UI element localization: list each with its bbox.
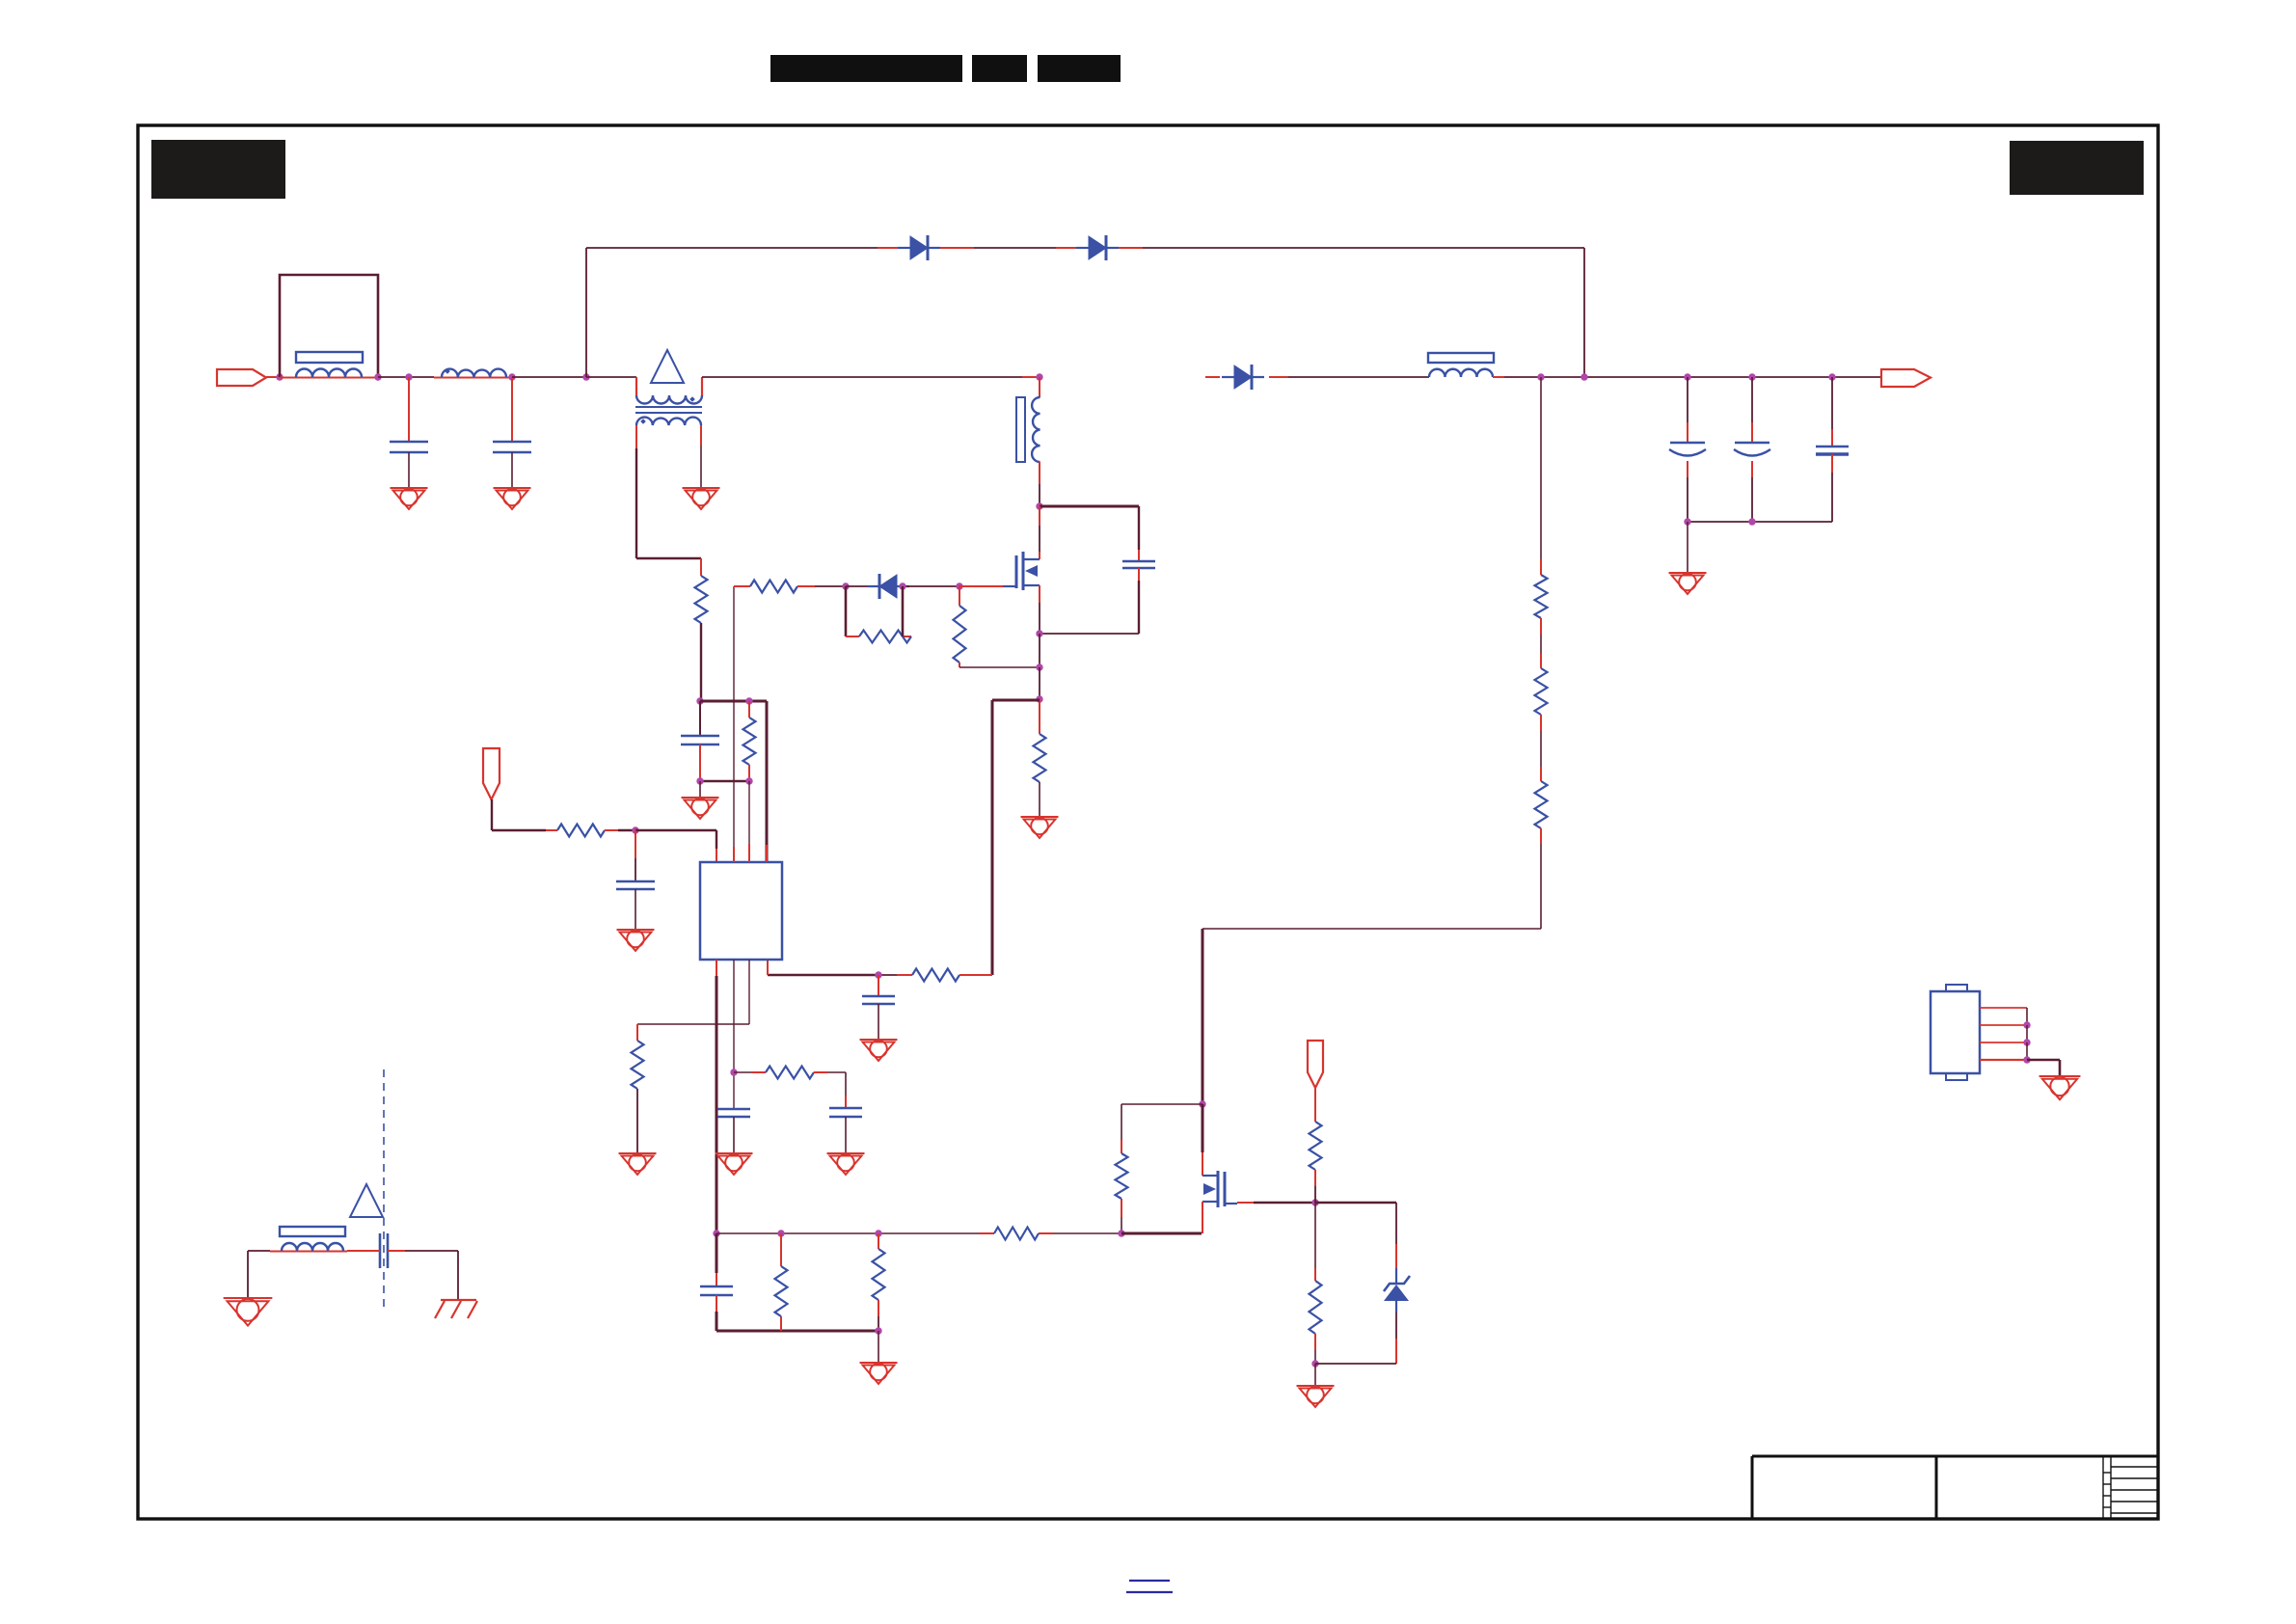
wire R16 to node	[797, 585, 815, 587]
phase dot T1 secondary	[640, 419, 646, 424]
node bypass left	[582, 373, 589, 380]
wire T1 primary left lead	[635, 377, 637, 395]
capacitor C4	[616, 880, 655, 883]
ground G10	[716, 1152, 753, 1154]
wire IC pin5 lead	[767, 960, 769, 975]
wire chain mid2	[1540, 715, 1542, 731]
redaction box top-left	[151, 140, 285, 199]
wire fb cap lead	[845, 1072, 847, 1096]
wire sense resistor top lead	[1039, 699, 1040, 734]
wire C3 top lead	[699, 701, 701, 736]
wire sense to ground	[1039, 782, 1040, 817]
mosfet Q2 arrow	[1203, 1183, 1216, 1195]
ground G1	[391, 487, 428, 489]
wire C13 lead	[1831, 377, 1833, 429]
wire R3 node to IC pin	[748, 781, 750, 844]
node sense top	[1537, 373, 1544, 380]
wire aux bottom run	[636, 557, 701, 559]
IC pin4 lead	[716, 960, 717, 976]
wire C3 bottom lead	[699, 744, 701, 781]
mosfet Q1 gate bar	[1015, 555, 1018, 588]
resistor R9	[994, 1228, 1039, 1240]
node fb	[730, 1069, 737, 1075]
node bus-3	[875, 1230, 881, 1236]
diode D6	[910, 236, 928, 259]
resistor R12	[1310, 1281, 1322, 1334]
capacitor C2	[493, 441, 531, 444]
wire C6 to ground	[845, 1117, 847, 1153]
node L3 top	[1036, 373, 1042, 380]
wire pin4 thick drop	[716, 976, 718, 1233]
wire T1 secondary right lead	[700, 425, 702, 446]
node C1 top	[405, 373, 412, 380]
node zener bottom	[1311, 1360, 1318, 1367]
wire R12 top	[1314, 1203, 1316, 1268]
transformer T1 core	[635, 406, 702, 408]
wire zener return	[1315, 1363, 1396, 1365]
wire gate run left	[734, 585, 750, 587]
wire pin2 branch left	[637, 1023, 749, 1025]
wire red at D6	[878, 247, 910, 249]
wire main from T1 to L3 node	[702, 376, 1022, 378]
wire zener branch down	[1395, 1203, 1397, 1244]
wire capbus to ground	[1687, 522, 1688, 573]
ground G11	[827, 1152, 865, 1154]
transformer T1 secondary winding	[636, 418, 701, 425]
wire main C2 to bypass node	[512, 376, 586, 378]
wire L3 bottom lead	[1039, 462, 1040, 484]
wire gate to zener corner	[1315, 1202, 1396, 1204]
node gate-1	[842, 582, 849, 589]
wire R12 bottom	[1314, 1334, 1316, 1350]
parallel loop bottom red	[846, 636, 859, 637]
capacitor C1	[390, 441, 428, 444]
node bus-2	[777, 1230, 784, 1236]
ground G13	[1297, 1385, 1335, 1387]
mosfet Q1 channel bar	[1022, 552, 1025, 590]
wire cap ground bus	[1688, 521, 1832, 523]
wire snubber return	[1040, 633, 1139, 635]
node J2-b	[2023, 1039, 2030, 1045]
ground G2	[494, 487, 531, 489]
resistor R17 parallel	[859, 631, 911, 643]
node aux-2	[745, 697, 752, 704]
connector J2 pin3 wire	[1980, 1042, 2027, 1043]
wire L5 to output	[1493, 376, 1504, 378]
capacitor C13	[1816, 446, 1849, 448]
node bus-1	[713, 1230, 719, 1236]
wire J2 to ground	[2027, 1059, 2060, 1062]
wire main input	[266, 376, 280, 378]
resistor R3	[743, 717, 756, 765]
page number mark	[1129, 1580, 1170, 1582]
wire bus to IC pin5	[768, 974, 878, 977]
mosfet Q2 drain stub	[1202, 1175, 1218, 1177]
wire Q2 drain riser	[1202, 929, 1204, 1104]
wire L4 to C10	[347, 1250, 380, 1252]
wire D4 left lead	[846, 585, 873, 587]
isolation barrier dashed line	[383, 1069, 385, 1308]
resistor R18	[954, 606, 966, 663]
node aux-4	[745, 777, 752, 784]
wire R4 to node	[605, 829, 618, 831]
parallel loop left side	[845, 586, 848, 636]
wire R11 bottom	[1314, 1170, 1316, 1186]
wire C2 to ground	[511, 452, 513, 488]
IC U1 pin stubs top	[748, 844, 750, 862]
connector J2 tab bottom	[1946, 1073, 1967, 1080]
wire C11 bottom	[1687, 461, 1688, 477]
inductor L1	[296, 369, 362, 378]
diode D7	[1089, 236, 1106, 259]
wire 5V down	[1314, 1088, 1316, 1122]
phase dot T1 primary	[689, 396, 695, 402]
connector J1 AC input	[217, 369, 266, 386]
mosfet Q2 channel bar	[1217, 1171, 1220, 1207]
resistor R3 top lead	[748, 701, 750, 717]
IC pin2 lead	[748, 960, 750, 1024]
node J2-c	[2023, 1056, 2030, 1063]
node vcc-cap	[632, 826, 638, 833]
wire Q2 source down	[1202, 1202, 1203, 1233]
node Q1 source	[1036, 695, 1042, 702]
wire main-2 to C1 node	[378, 376, 409, 378]
wire bus1380 to ground	[878, 1331, 879, 1363]
wire C12 lead	[1751, 377, 1753, 422]
wire R20 bottom	[1121, 1199, 1122, 1217]
node Q2 drain	[1199, 1100, 1205, 1107]
wire CS feedback red	[977, 974, 992, 976]
node R18 return	[1036, 663, 1042, 670]
wire C7 down	[716, 1295, 717, 1312]
transformer T1 primary winding	[636, 395, 702, 404]
node C2 top	[508, 373, 515, 380]
resistor R5 fb	[766, 1067, 814, 1079]
capacitor C10 Y-cap	[379, 1233, 382, 1268]
wire R6 top lead	[636, 1024, 638, 1041]
wire D3 leads red	[1205, 376, 1220, 378]
wire C5 to ground	[733, 1117, 735, 1153]
wire VCC down	[491, 799, 493, 830]
wire R8 leads	[878, 1233, 879, 1249]
wire Q2 gate lead	[1225, 1203, 1237, 1204]
wire C12 bottom	[1751, 461, 1753, 477]
capacitor C12	[1735, 442, 1769, 445]
parallel loop right side	[902, 586, 905, 636]
wire under L2 coil	[434, 377, 512, 379]
fuse F1 body	[296, 352, 363, 363]
wire Q2 drain lead	[1202, 1104, 1204, 1152]
node bus-4	[875, 1327, 881, 1334]
resistor R2 aux	[695, 576, 708, 623]
resistor R18 bottom lead	[959, 663, 960, 667]
node main-2	[374, 373, 381, 380]
node C11 top	[1684, 373, 1690, 380]
connector J2 body	[1931, 991, 1980, 1073]
node bypass right	[1580, 373, 1587, 380]
wire node row 810	[700, 780, 749, 782]
jumper loop over F1	[280, 275, 378, 377]
connector VCC port	[483, 748, 500, 799]
node aux-3	[696, 777, 703, 784]
wire main to T1	[586, 376, 636, 378]
inductor L5	[1429, 369, 1493, 377]
wire R20 branch	[1121, 1103, 1202, 1105]
inductor L3	[1032, 397, 1040, 462]
title redaction bar 2	[972, 55, 1027, 82]
ground G12	[860, 1362, 898, 1364]
wire L3 top lead	[1039, 377, 1040, 397]
phase dot L2	[445, 368, 450, 374]
wire C4 to ground	[635, 889, 636, 930]
mosfet Q1 drain stub	[1023, 558, 1040, 560]
wire R6 to ground	[636, 1089, 638, 1153]
wire source to sense node	[1039, 667, 1040, 699]
wire C13 bottom	[1831, 454, 1833, 473]
wire C1 to ground	[408, 452, 410, 488]
capacitor C3	[681, 735, 719, 738]
node Q1 drain	[1036, 502, 1042, 509]
wire C2 lead	[511, 377, 513, 442]
triangle marker iso	[350, 1184, 383, 1217]
ground G3	[683, 487, 720, 489]
resistor R8	[873, 1249, 885, 1300]
title block	[1752, 1455, 2158, 1458]
wire to ground G5	[699, 781, 701, 798]
node main-1	[276, 373, 283, 380]
node C12 top	[1748, 373, 1755, 380]
wire red at D7	[1056, 247, 1089, 249]
wire R7 leads	[780, 1233, 782, 1266]
resistor R3 bottom lead	[748, 765, 750, 781]
mosfet Q1 arrow	[1025, 565, 1038, 577]
ground G5	[682, 797, 719, 798]
resistor R18 top lead	[959, 586, 960, 606]
border frame	[138, 125, 2158, 1519]
wire R2 to VCC node	[700, 623, 702, 701]
inductor L4	[282, 1243, 343, 1251]
wire R5 to corner	[814, 1071, 827, 1073]
wire R9 red leads	[979, 1232, 994, 1234]
wire C4 top lead	[635, 830, 636, 858]
wire VCC run	[492, 829, 546, 831]
wire L4 left	[248, 1250, 270, 1252]
wire under L4 coil	[270, 1251, 347, 1253]
wire node row 727	[700, 700, 767, 703]
wire R10 leads	[959, 974, 977, 976]
capacitor C6	[829, 1107, 862, 1110]
resistor R13	[1535, 575, 1548, 618]
capacitor C5	[717, 1108, 750, 1111]
mosfet Q1 source stub	[1023, 584, 1040, 586]
wire VCC corner into IC pin 8	[766, 701, 769, 862]
wire snubber right lower	[1138, 568, 1140, 581]
resistor R7	[775, 1266, 788, 1316]
node snubber return	[1036, 630, 1042, 636]
wire main to L5	[1288, 376, 1429, 378]
node gate-2	[899, 582, 905, 589]
wire bypass top run	[586, 247, 1584, 249]
wire gate to R18 node	[926, 585, 959, 587]
wire C11 lead	[1687, 377, 1688, 422]
wire T1 primary right lead	[701, 377, 703, 395]
wire CS feedback riser	[991, 700, 994, 975]
resistor R16 gate	[750, 581, 797, 593]
capacitor C9 snubber	[1122, 560, 1155, 563]
capacitor C11	[1670, 442, 1705, 445]
wire chain bottom	[1540, 828, 1542, 844]
wire zener bottom lead	[1395, 1301, 1397, 1313]
connector J3 output	[1881, 369, 1931, 387]
connector J2 pin4 wire	[1980, 1059, 2027, 1061]
ground G6	[617, 929, 655, 931]
wire fb branch	[734, 1071, 752, 1073]
wire CS feedback horiz	[992, 699, 1040, 702]
wire T1 secondary left lead	[635, 425, 637, 448]
ground G7	[1021, 816, 1059, 818]
wire D4 right lead	[904, 585, 926, 587]
wire chain mid1	[1540, 618, 1542, 635]
wire snubber right upper	[1138, 506, 1140, 550]
node capbus-2	[1748, 518, 1755, 525]
wire C10 right	[388, 1250, 405, 1252]
capacitor C8	[862, 995, 895, 998]
connector J2 pin2 wire	[1980, 1024, 2027, 1026]
inductor L2	[442, 369, 506, 377]
wire gate into Q1	[959, 585, 1003, 587]
wire chain left run	[1202, 928, 1541, 930]
mosfet Q2 gate bar	[1224, 1172, 1227, 1206]
wire C8 top lead	[878, 975, 879, 996]
node C8 top	[875, 971, 881, 978]
resistor R11	[1310, 1122, 1322, 1170]
capacitor C7	[700, 1286, 733, 1288]
node gate Q2	[1311, 1199, 1318, 1205]
wire to ground G13	[1314, 1364, 1316, 1386]
wire C8 to ground	[878, 1004, 879, 1040]
wire Q1 source down	[1039, 585, 1040, 603]
wire source to R18 node	[1039, 634, 1040, 667]
title redaction bar 1	[770, 55, 962, 82]
diode D4	[879, 575, 897, 598]
diode D3	[1234, 365, 1252, 389]
connector J2 pin1 wire	[1980, 1007, 2027, 1009]
node C13 top	[1828, 373, 1835, 380]
node aux-1	[696, 697, 703, 704]
resistor R15	[1535, 781, 1548, 828]
wire R20 top lead	[1121, 1104, 1122, 1140]
wire bus 1279	[716, 1232, 979, 1234]
wire under L1 coil	[280, 377, 378, 379]
wire bus 1380	[716, 1330, 878, 1333]
resistor R20	[1116, 1153, 1128, 1199]
wire bypass riser right	[1583, 248, 1585, 377]
ground G8	[860, 1039, 898, 1041]
fuse F3 body	[280, 1227, 345, 1236]
connector J2 tab top	[1946, 985, 1967, 991]
zener D5	[1384, 1285, 1409, 1301]
fuse F2 body	[1428, 353, 1494, 363]
IC pin3 lead thin	[733, 960, 735, 1109]
wire chain top	[1540, 377, 1542, 559]
IC U1	[700, 862, 782, 960]
resistor R10 CS	[912, 969, 959, 982]
ground G4	[1669, 572, 1707, 574]
resistor R14	[1535, 668, 1548, 715]
wire Q1 drain lead	[1039, 506, 1040, 526]
wire feed to IC pin1	[635, 829, 716, 831]
wire bus thick to Q2	[1121, 1232, 1202, 1235]
wire bus to Q2	[1054, 1232, 1121, 1234]
wire bypass riser left	[585, 248, 587, 377]
wire C1 lead	[408, 377, 410, 442]
ground G9	[619, 1152, 657, 1154]
node bus-5	[1118, 1230, 1124, 1236]
earth ground symbol	[435, 1300, 477, 1318]
node gate-3	[956, 582, 962, 589]
title redaction bar 3	[1038, 55, 1121, 82]
wire R18 return to source	[959, 666, 1040, 668]
ground G14	[224, 1297, 273, 1299]
node capbus-1	[1684, 518, 1690, 525]
connector 5V port	[1308, 1041, 1323, 1088]
resistor R19 sense	[1034, 734, 1046, 782]
wire IC pin7 riser	[733, 586, 735, 862]
resistor R4 vcc feed	[557, 825, 605, 837]
mosfet Q2 source stub	[1202, 1201, 1218, 1203]
wire snubber top	[1040, 505, 1139, 508]
ground G15	[2039, 1075, 2081, 1077]
resistor R6	[632, 1041, 644, 1089]
node J2-a	[2023, 1021, 2030, 1028]
inductor L3 core	[1016, 397, 1025, 462]
wire pin4 to C7	[716, 1233, 718, 1273]
triangle marker T1	[651, 350, 684, 383]
redaction box top-right	[2010, 141, 2144, 195]
